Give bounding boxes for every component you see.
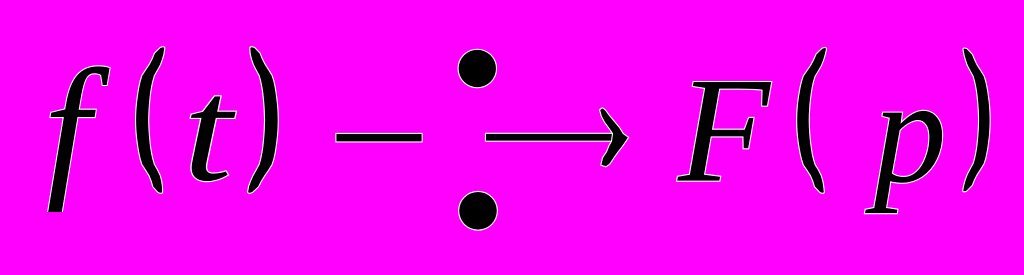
arrow head bbox=[600, 108, 628, 166]
top dot of colon bbox=[459, 50, 496, 87]
left parenthesis ( of F(p) bbox=[797, 48, 826, 193]
svg-text:p: p bbox=[865, 48, 947, 214]
right parenthesis ) of F(p) bbox=[963, 49, 989, 192]
correspondence dash bbox=[336, 134, 421, 141]
svg-text:F: F bbox=[677, 47, 772, 214]
bottom dot of colon bbox=[459, 192, 497, 230]
left parenthesis ( of f(t) bbox=[136, 47, 164, 193]
svg-text:t: t bbox=[183, 49, 236, 213]
glyph f bbox=[44, 34, 110, 230]
right parenthesis ) of f(t) bbox=[248, 47, 278, 193]
arrow shaft bbox=[486, 134, 616, 141]
